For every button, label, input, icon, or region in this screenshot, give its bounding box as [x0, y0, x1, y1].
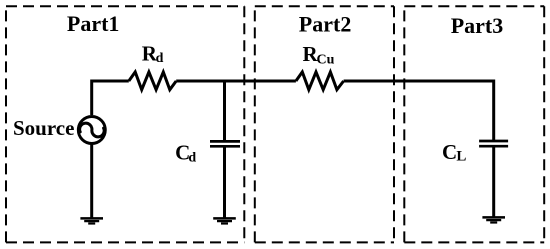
svg-text:C: C [442, 140, 457, 164]
svg-text:L: L [456, 148, 466, 164]
wire: source bottom to ground [90, 144, 93, 218]
resistor R_Cu [296, 72, 344, 90]
Part1 box [6, 6, 244, 242]
ground (C_d) [213, 218, 236, 223]
Part3 box [404, 6, 544, 242]
source V1 [78, 117, 105, 144]
capacitor C_d [210, 141, 240, 146]
resistor R_d [129, 72, 176, 90]
label C_d [175, 141, 196, 166]
wire: R_Cu right to C_L corner [344, 81, 494, 141]
svg-text:d: d [156, 51, 164, 66]
svg-text:Part3: Part3 [451, 13, 504, 38]
label R_d [142, 42, 164, 66]
label C_L [442, 140, 466, 164]
svg-text:d: d [188, 151, 196, 166]
ground (C_L) [482, 217, 505, 222]
wire: R_d right to R_Cu left [176, 80, 296, 83]
ground (source) [80, 218, 103, 223]
svg-text:Part2: Part2 [299, 12, 352, 37]
Part2 box [255, 6, 394, 242]
wire: junction to C_d [223, 81, 226, 141]
wire: C_d to ground [223, 146, 226, 218]
svg-text:Source: Source [13, 116, 74, 140]
wire: source top to R_d left [92, 81, 129, 115]
label R_Cu [303, 42, 335, 68]
svg-text:Cu: Cu [317, 53, 335, 68]
wire: C_L to ground [492, 146, 495, 217]
svg-text:Part1: Part1 [67, 11, 120, 36]
capacitor C_L [479, 141, 508, 146]
